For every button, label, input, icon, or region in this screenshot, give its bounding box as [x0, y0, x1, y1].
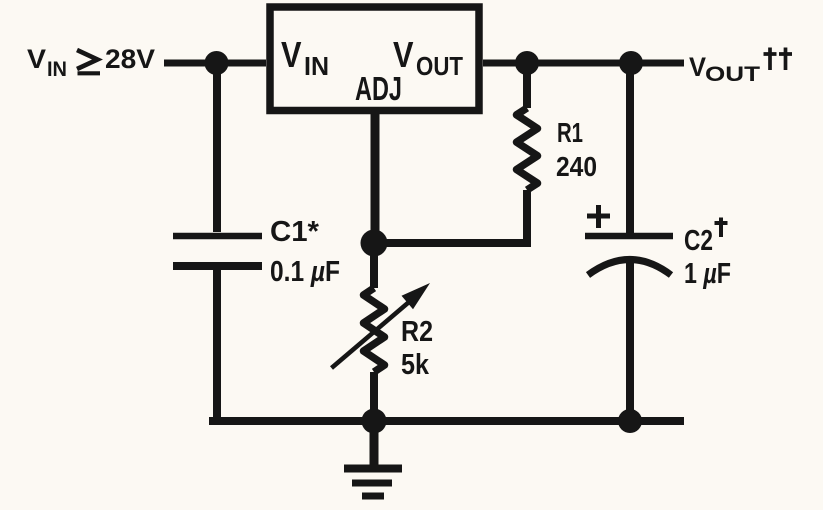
svg-text:R2: R2 — [401, 316, 433, 348]
svg-text:V: V — [393, 34, 414, 75]
svg-text:R1: R1 — [557, 117, 583, 148]
svg-text:1 µF: 1 µF — [684, 258, 731, 290]
svg-text:ADJ: ADJ — [355, 70, 402, 107]
svg-text:IN: IN — [304, 51, 329, 81]
svg-text:0.1 µF: 0.1 µF — [270, 256, 340, 288]
svg-text:V: V — [27, 44, 46, 74]
svg-text:V: V — [281, 34, 302, 75]
svg-text:OUT: OUT — [416, 51, 463, 81]
svg-text:V: V — [689, 52, 706, 82]
svg-text:240: 240 — [556, 151, 597, 182]
svg-text:OUT: OUT — [705, 63, 760, 86]
svg-text:C1*: C1* — [270, 216, 320, 248]
svg-text:C2: C2 — [684, 225, 713, 257]
svg-text:28V: 28V — [105, 44, 155, 74]
svg-text:5k: 5k — [401, 349, 430, 381]
svg-text:IN: IN — [47, 58, 67, 81]
